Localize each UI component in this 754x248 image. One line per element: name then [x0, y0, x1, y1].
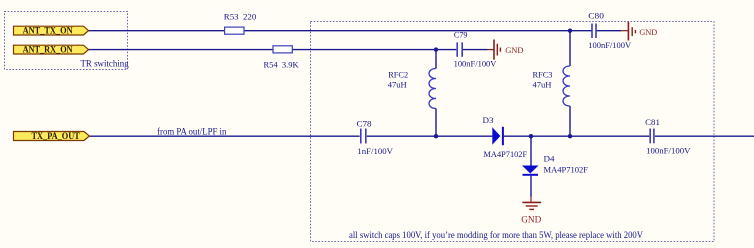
svg-text:R54 3.9K: R54 3.9K	[264, 59, 300, 69]
svg-text:TR switching: TR switching	[81, 60, 129, 70]
svg-text:47uH: 47uH	[388, 79, 407, 89]
svg-text:D4: D4	[544, 154, 556, 164]
svg-text:ANT_TX_ON: ANT_TX_ON	[23, 26, 73, 36]
svg-text:100nF/100V: 100nF/100V	[646, 145, 691, 155]
svg-text:C80: C80	[588, 10, 604, 20]
svg-text:D3: D3	[483, 115, 494, 125]
svg-text:RFC2: RFC2	[388, 69, 408, 79]
svg-text:GND: GND	[639, 27, 657, 37]
svg-text:100nF/100V: 100nF/100V	[588, 40, 632, 50]
svg-text:C79: C79	[454, 29, 468, 39]
svg-text:C81: C81	[645, 117, 660, 127]
svg-text:from PA out/LPF in: from PA out/LPF in	[157, 126, 227, 137]
svg-text:47uH: 47uH	[533, 79, 552, 89]
svg-text:all switch caps 100V, if you’r: all switch caps 100V, if you’re modding …	[349, 230, 643, 241]
svg-text:MA4P7102F: MA4P7102F	[484, 149, 528, 159]
svg-text:1nF/100V: 1nF/100V	[357, 146, 393, 156]
svg-text:C78: C78	[357, 118, 372, 128]
svg-text:R53 220: R53 220	[224, 12, 256, 22]
svg-text:GND: GND	[521, 214, 541, 224]
svg-text:ANT_RX_ON: ANT_RX_ON	[23, 45, 73, 55]
svg-text:MA4P7102F: MA4P7102F	[544, 165, 589, 175]
svg-text:RFC3: RFC3	[533, 69, 553, 79]
svg-text:100nF/100V: 100nF/100V	[454, 59, 498, 69]
svg-text:GND: GND	[505, 45, 523, 55]
svg-text:TX_PA_OUT: TX_PA_OUT	[32, 132, 81, 142]
